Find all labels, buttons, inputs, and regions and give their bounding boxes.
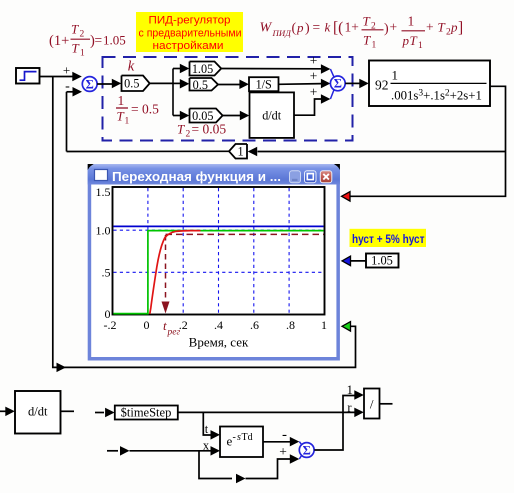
svg-text:=: = (95, 33, 103, 48)
svg-text:1/S: 1/S (256, 78, 272, 92)
svg-text:Td: Td (242, 432, 253, 443)
svg-text:T: T (72, 41, 80, 56)
svg-text:d/dt: d/dt (28, 405, 48, 419)
svg-text:рег: рег (167, 328, 181, 338)
svg-text:(1+: (1+ (49, 33, 69, 49)
svg-text:1: 1 (347, 383, 353, 397)
svg-text:T: T (363, 33, 371, 48)
svg-text:92: 92 (375, 78, 389, 93)
svg-text:+: + (426, 20, 434, 35)
svg-text:1: 1 (125, 117, 130, 127)
svg-text:1: 1 (408, 14, 415, 29)
svg-text:Переходная функция и ...: Переходная функция и ... (112, 170, 281, 184)
svg-text:p: p (296, 20, 304, 35)
svg-text:x: x (203, 439, 210, 453)
svg-text:Σ: Σ (303, 443, 311, 457)
svg-text:.5: .5 (102, 265, 111, 279)
svg-text:ПИД-регулятор: ПИД-регулятор (149, 15, 231, 27)
svg-text:[(: [( (333, 20, 343, 37)
svg-text:0.5: 0.5 (193, 78, 208, 92)
svg-text:): ) (305, 21, 310, 36)
svg-text:T: T (363, 14, 371, 29)
svg-text:]: ] (458, 20, 463, 37)
svg-text:2: 2 (186, 130, 191, 140)
svg-text:t: t (163, 318, 167, 333)
svg-text:.4: .4 (214, 318, 223, 332)
svg-text:1.0: 1.0 (96, 223, 111, 237)
svg-text:Время, сек: Время, сек (189, 335, 249, 350)
svg-text:ПИД: ПИД (272, 28, 292, 38)
svg-text:T: T (117, 109, 125, 124)
svg-text:1: 1 (238, 145, 244, 159)
svg-text:-: - (65, 79, 70, 94)
svg-text:Σ: Σ (86, 77, 94, 91)
svg-text:0: 0 (144, 318, 150, 332)
svg-text:+: + (310, 53, 318, 68)
svg-text:1: 1 (321, 318, 327, 332)
svg-text:+: + (63, 63, 70, 78)
svg-text:настройками: настройками (153, 40, 224, 52)
svg-text:p: p (450, 20, 458, 35)
svg-text:T: T (438, 20, 446, 35)
svg-text:1.05: 1.05 (371, 254, 393, 268)
svg-text:=: = (313, 20, 321, 35)
svg-text:= 0.5: = 0.5 (131, 102, 159, 117)
svg-text:-.2: -.2 (104, 318, 117, 332)
svg-text:d/dt: d/dt (262, 109, 282, 123)
svg-text:t: t (205, 422, 209, 436)
svg-text:0.5: 0.5 (124, 77, 139, 91)
svg-text:$timeStep: $timeStep (121, 406, 172, 420)
svg-text:+: + (279, 444, 287, 459)
svg-text:k: k (128, 59, 135, 75)
svg-text:+: + (390, 20, 398, 35)
svg-text:+: + (310, 85, 318, 100)
svg-text:T: T (177, 122, 185, 137)
svg-text:.6: .6 (250, 318, 259, 332)
svg-text:T: T (410, 33, 418, 48)
svg-text:p: p (402, 33, 410, 48)
svg-text:1: 1 (80, 49, 85, 59)
svg-text:= 0.05: = 0.05 (192, 122, 227, 137)
svg-text:1: 1 (392, 68, 399, 83)
svg-text:-: - (233, 432, 236, 443)
svg-text:1: 1 (418, 41, 423, 51)
svg-text:1.05: 1.05 (103, 33, 126, 48)
svg-text:T: T (71, 22, 79, 37)
svg-text:с предварительными: с предварительными (139, 28, 242, 40)
svg-text:k: k (325, 20, 331, 35)
svg-text:0.05: 0.05 (192, 109, 213, 123)
svg-text:1.5: 1.5 (96, 185, 111, 199)
svg-text:+: + (310, 69, 318, 84)
svg-text:1+: 1+ (345, 20, 359, 35)
svg-text:Σ: Σ (334, 77, 342, 91)
svg-text:/: / (370, 397, 374, 412)
svg-text:(: ( (292, 21, 297, 36)
svg-text:-: - (282, 427, 287, 443)
svg-text:): ) (384, 22, 389, 37)
svg-text:s: s (237, 432, 241, 443)
svg-text:1.05: 1.05 (192, 62, 213, 76)
svg-text:.001s3+.1s2+2s+1: .001s3+.1s2+2s+1 (391, 89, 482, 103)
svg-text:1: 1 (372, 41, 377, 51)
svg-text:.8: .8 (286, 318, 295, 332)
svg-text:W: W (260, 21, 273, 36)
svg-text:1: 1 (118, 93, 125, 108)
svg-text:2: 2 (80, 30, 85, 40)
svg-text:hуст + 5% hуст: hуст + 5% hуст (352, 232, 425, 246)
